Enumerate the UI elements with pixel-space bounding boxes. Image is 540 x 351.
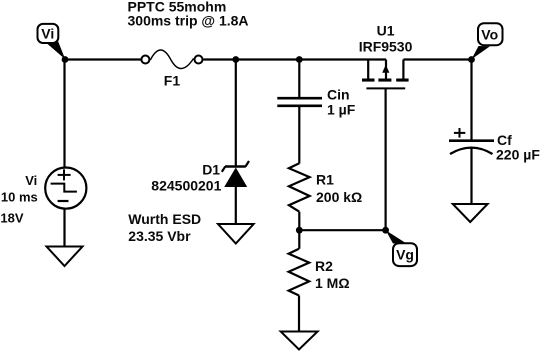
node Vo pointer wedge <box>472 46 491 59</box>
svg-text:23.35 Vbr: 23.35 Vbr <box>128 228 191 244</box>
wire Cin to R1 <box>298 106 300 164</box>
U1 channel bars <box>362 79 375 82</box>
capacitor Cf (polarized) <box>449 141 494 154</box>
wire U1 gate down to Vg junction <box>385 88 387 230</box>
wire D1 to ground <box>235 187 237 224</box>
svg-text:824500201: 824500201 <box>151 177 221 193</box>
wire Cf to ground <box>470 148 472 204</box>
svg-text:R2: R2 <box>315 258 333 274</box>
node Vi junction dot <box>62 56 69 63</box>
wire fuse F1 to D1 junction <box>203 58 236 60</box>
voltage source V1 <box>45 168 86 209</box>
wire U1 drain rail to Vo node <box>403 58 471 60</box>
junction dot (R1/R2) <box>296 227 303 234</box>
wire Vo node down to Cf <box>470 60 472 141</box>
junction dot (Vg) <box>382 227 389 234</box>
svg-text:10 ms: 10 ms <box>1 189 38 204</box>
wire source V1 to ground <box>63 209 65 247</box>
svg-text:Vo: Vo <box>481 26 498 42</box>
svg-text:300ms trip @ 1.8A: 300ms trip @ 1.8A <box>128 13 249 29</box>
resistor R2 <box>289 249 310 296</box>
plus mark (Cf polarity) <box>454 128 465 138</box>
ground (D1) <box>218 224 254 244</box>
wire Cin junction to U1 source rail <box>299 58 386 60</box>
capacitor Cin <box>277 98 322 106</box>
junction dot (fuse / D1) <box>232 56 239 63</box>
svg-text:18V: 18V <box>0 211 23 226</box>
wire R1/R2 junction to Vg node <box>299 229 385 231</box>
wire R1 to junction <box>298 212 300 231</box>
transistor U1 (P-MOSFET IRF9530) <box>362 60 409 89</box>
svg-text:R1: R1 <box>316 172 334 188</box>
node Vg label box <box>393 243 417 266</box>
svg-text:U1: U1 <box>377 22 395 38</box>
wire junction down to D1 <box>235 60 237 167</box>
svg-text:F1: F1 <box>164 73 181 89</box>
svg-text:D1: D1 <box>202 162 220 178</box>
svg-text:Wurth ESD: Wurth ESD <box>128 211 201 227</box>
zener diode D1 <box>222 161 249 187</box>
svg-text:Vg: Vg <box>396 247 414 263</box>
U1 gate line <box>366 87 405 89</box>
wire Vi node down to source V1 <box>63 60 65 169</box>
wire junction down to R2 <box>298 230 300 249</box>
svg-text:Vi: Vi <box>41 26 54 42</box>
fuse F1 <box>141 50 202 69</box>
junction dot (Cin) <box>296 56 303 63</box>
junction dot (Vo) <box>468 56 475 63</box>
wire R2 to ground <box>298 296 300 332</box>
svg-text:Cin: Cin <box>327 86 350 102</box>
svg-text:220 µF: 220 µF <box>496 146 540 162</box>
U1 source lead <box>367 60 369 79</box>
svg-text:IRF9530: IRF9530 <box>359 38 413 54</box>
node Vi label box <box>38 24 59 43</box>
svg-text:1 µF: 1 µF <box>327 101 356 117</box>
node Vo label box <box>478 23 503 45</box>
svg-text:Vi: Vi <box>25 173 37 188</box>
wire Vi node to fuse F1 <box>65 58 141 60</box>
ground (R2) <box>281 332 318 350</box>
U1 body lead with arrow <box>385 60 387 80</box>
resistor R1 <box>289 163 310 211</box>
svg-text:200 kΩ: 200 kΩ <box>316 189 362 205</box>
node Vg pointer wedge <box>386 230 407 243</box>
U1 drain lead <box>402 60 404 79</box>
node Vi pointer wedge <box>47 41 65 59</box>
svg-text:1 MΩ: 1 MΩ <box>315 275 350 291</box>
wire D1 junction to Cin junction <box>236 58 299 60</box>
ground (source V1) <box>47 247 83 267</box>
wire junction down to Cin <box>298 60 300 99</box>
ground (Cf) <box>453 204 488 222</box>
